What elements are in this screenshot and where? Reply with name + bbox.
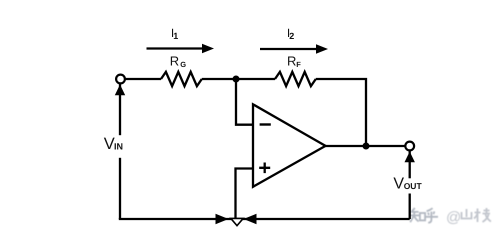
input terminal xyxy=(116,75,125,84)
wire: VIN branch vertical xyxy=(119,84,121,219)
知 xyxy=(410,208,420,222)
label I2 xyxy=(287,26,294,41)
minus input symbol xyxy=(260,123,271,125)
arrowhead: bottom left current arrow xyxy=(216,214,229,224)
I1 current arrow xyxy=(147,44,215,54)
wire: top rail input to RG xyxy=(125,78,161,80)
label VIN (with wire mask) xyxy=(102,135,130,158)
label RG xyxy=(170,54,187,69)
wire: op-amp output to terminal xyxy=(325,145,405,147)
op-amp U1 xyxy=(253,104,326,187)
output terminal xyxy=(405,142,414,151)
label VOUT (with wire mask) xyxy=(392,176,425,194)
wire: RF to feedback corner and down to output node xyxy=(316,79,366,146)
山 xyxy=(462,209,472,219)
arrowhead: VIN up arrow xyxy=(115,85,125,96)
wire: RG to RF through node xyxy=(202,78,275,80)
svg-text:1: 1 xyxy=(173,31,178,41)
svg-text:IN: IN xyxy=(114,141,123,151)
output node junction dot xyxy=(363,143,370,150)
svg-text:F: F xyxy=(296,60,301,69)
svg-text:@: @ xyxy=(446,209,461,226)
wire: VOUT branch vertical xyxy=(409,151,411,219)
ground xyxy=(231,218,243,225)
plus input symbol xyxy=(259,163,270,174)
resistor RG xyxy=(161,72,202,86)
arrowhead: VOUT up arrow xyxy=(405,152,415,163)
乎 xyxy=(425,208,438,223)
label I1 xyxy=(171,26,178,41)
wire: inverting input from node A xyxy=(236,79,253,125)
svg-text:OUT: OUT xyxy=(404,181,423,191)
label RF xyxy=(287,54,301,69)
svg-text:R: R xyxy=(287,54,296,69)
I2 current arrow xyxy=(260,44,328,54)
枝 xyxy=(474,208,491,222)
svg-text:G: G xyxy=(180,60,186,69)
resistor RF xyxy=(275,72,316,86)
wire: bottom rail xyxy=(119,218,410,220)
svg-text:2: 2 xyxy=(289,31,294,41)
arrowhead: bottom right current arrow xyxy=(244,214,257,224)
svg-text:R: R xyxy=(170,54,179,69)
node A junction dot xyxy=(233,76,240,83)
wire: non-inverting input down to ground xyxy=(236,169,254,220)
watermark 知乎 @山枝 xyxy=(410,208,491,223)
